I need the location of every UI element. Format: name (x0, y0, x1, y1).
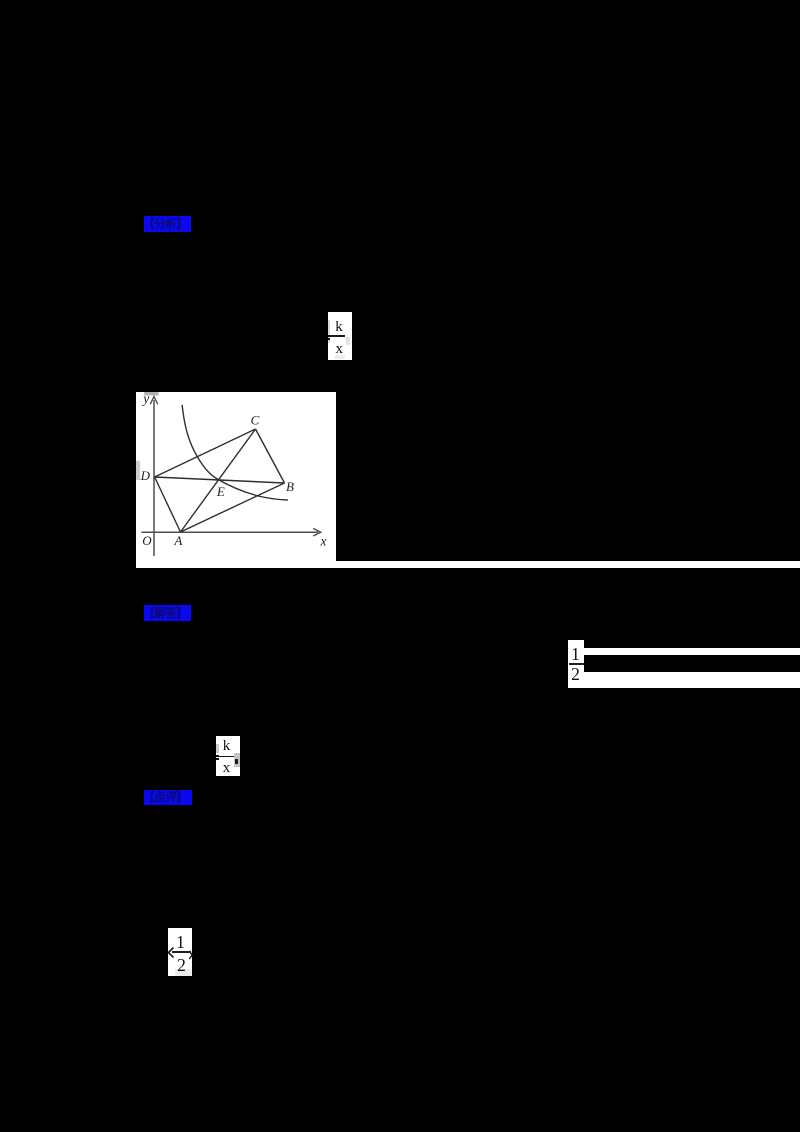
numerator k (216, 739, 237, 754)
gray artifact right block (234, 753, 240, 768)
denominator x (216, 761, 237, 776)
formula box B: = k/x (216, 736, 240, 776)
y-axis (153, 400, 155, 556)
x-axis arrowhead (313, 528, 321, 536)
diagram box (136, 392, 336, 568)
partial equals sign (216, 755, 219, 756)
numerator k (328, 320, 350, 335)
numerator 1 (169, 934, 192, 952)
edge C-D (155, 429, 256, 477)
y-axis arrowhead (150, 397, 158, 405)
fraction bar (217, 756, 234, 757)
svg-text:A: A (173, 533, 182, 548)
white text strip row 2 (584, 672, 800, 688)
x-axis (142, 531, 319, 533)
svg-text:C: C (251, 413, 260, 428)
svg-text:y: y (141, 392, 149, 406)
gray patch left near D (136, 461, 140, 480)
diagonal A-C (181, 429, 256, 532)
label 2 blue 【解答】 (144, 605, 191, 621)
svg-text:D: D (140, 468, 151, 483)
gray artifact right (346, 337, 351, 345)
left edge marks (partial ×) (168, 946, 175, 959)
edge D-A (155, 477, 181, 532)
gray artifact left column (328, 320, 330, 343)
right edge mark (189, 950, 193, 960)
hyperbola curve (182, 405, 288, 500)
svg-text:O: O (142, 533, 152, 548)
edge B-C (256, 429, 285, 483)
bottom gray band (175, 969, 192, 976)
black mark right (235, 759, 238, 764)
partial equals sign (328, 335, 330, 337)
denominator x (328, 342, 351, 357)
fraction bar (330, 335, 345, 336)
svg-text:x: x (320, 533, 327, 548)
gray patch top (144, 392, 158, 395)
gray artifact left column (216, 744, 219, 753)
formula box D: 1/2 (168, 928, 192, 976)
formula box A: = k/x (328, 312, 352, 361)
label 3 blue 【点评】 (144, 790, 192, 805)
gray artifact bottom (335, 355, 345, 359)
denominator 2 (170, 957, 193, 975)
white text strip row 1 (584, 648, 800, 656)
svg-text:B: B (286, 479, 294, 494)
edge A-B (181, 483, 285, 532)
svg-text:E: E (216, 484, 225, 499)
white text strip row 0 (right of diagram) (336, 561, 800, 568)
diagonal D-B (155, 477, 285, 483)
formula box C: 1/2 (568, 640, 584, 688)
label 1 blue 【分析】 (144, 216, 191, 233)
fraction bar (172, 951, 190, 953)
